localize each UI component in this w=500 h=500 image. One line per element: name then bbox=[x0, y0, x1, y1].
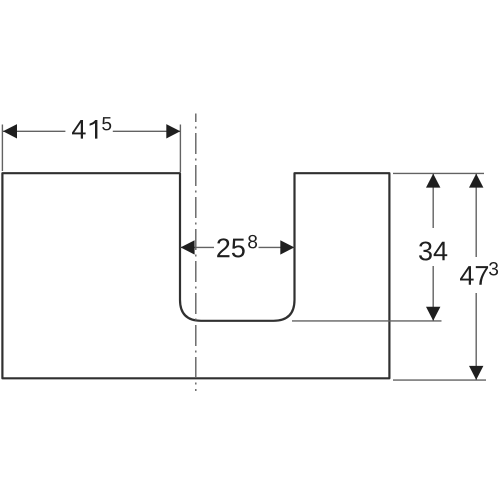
label 47^3 bbox=[460, 262, 498, 285]
arrow down (47.3) bbox=[469, 366, 483, 380]
arrow left (25.8) bbox=[181, 240, 195, 254]
dimension line 34 lower segment bbox=[432, 266, 434, 321]
extension line right (41.5) bbox=[179, 125, 181, 173]
extension line cutout bottom bbox=[292, 320, 442, 322]
dimension line 41.5 left segment bbox=[3, 130, 65, 132]
arrow left (41.5) bbox=[3, 124, 17, 138]
arrow down (34) bbox=[426, 307, 440, 321]
dimension line 47.3 lower segment bbox=[475, 293, 477, 380]
label 25^8 bbox=[217, 235, 257, 258]
label 41^5 bbox=[72, 117, 111, 138]
arrow up (47.3) bbox=[469, 174, 483, 188]
extension line left (41.5) bbox=[1, 125, 3, 172]
dimension line 41.5 right segment bbox=[113, 130, 180, 132]
dimension line 34 upper segment bbox=[432, 174, 434, 228]
centerline (dash-dot) bbox=[195, 114, 197, 392]
arrow right (25.8) bbox=[280, 240, 294, 254]
extension line bottom right bbox=[393, 379, 486, 381]
dimension line 47.3 upper segment bbox=[475, 174, 477, 257]
dimension line 25.8 right segment bbox=[259, 246, 295, 248]
arrow up (34) bbox=[426, 174, 440, 188]
extension line top right bbox=[393, 172, 484, 174]
arrow right (41.5) bbox=[166, 124, 180, 138]
label 34 bbox=[419, 241, 447, 260]
dimension line 25.8 left segment bbox=[181, 246, 214, 248]
countertop outline with U-cutout bbox=[2, 173, 389, 378]
